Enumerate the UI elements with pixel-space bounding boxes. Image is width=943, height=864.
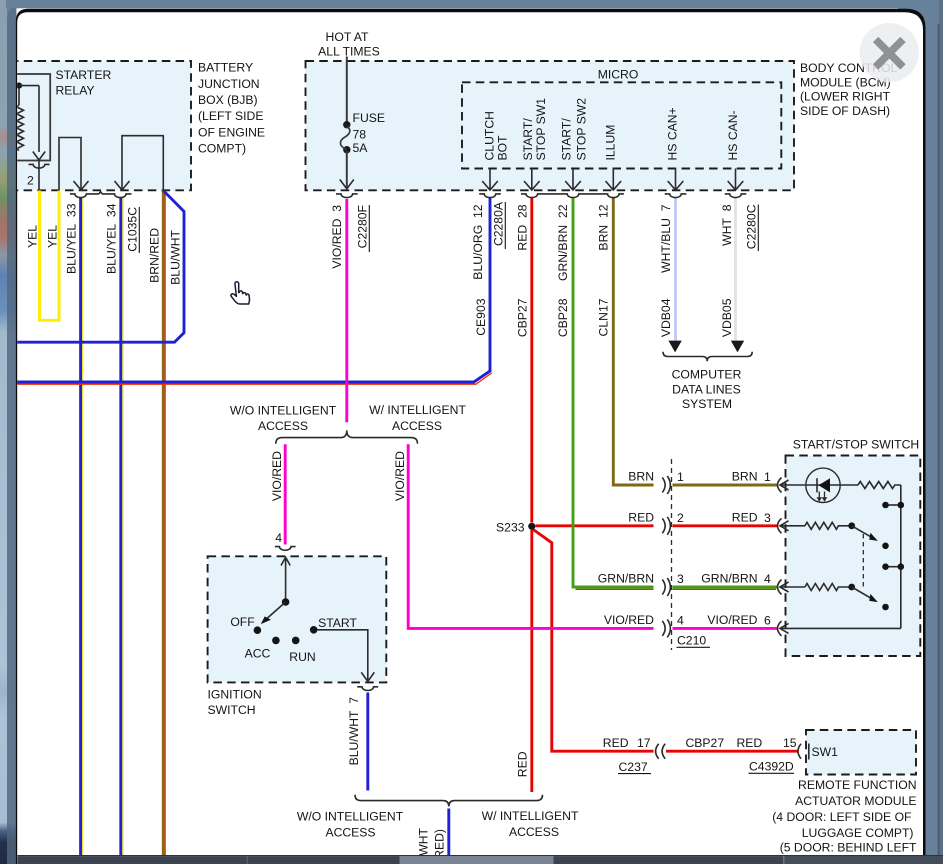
svg-text:HOT AT: HOT AT [326, 30, 369, 44]
svg-text:ALL TIMES: ALL TIMES [318, 45, 380, 59]
svg-text:BRN: BRN [732, 470, 758, 484]
svg-text:OF ENGINE: OF ENGINE [198, 125, 265, 139]
svg-text:ACCESS: ACCESS [392, 419, 442, 433]
svg-text:GRN/BRN: GRN/BRN [701, 572, 757, 586]
svg-text:YEL: YEL [46, 225, 60, 248]
svg-text:C4392D: C4392D [749, 760, 794, 774]
svg-text:3: 3 [764, 511, 771, 525]
svg-text:CBP27: CBP27 [686, 736, 725, 750]
svg-text:HS CAN-: HS CAN- [726, 110, 740, 160]
svg-text:RED 28: RED 28 [516, 204, 530, 250]
svg-text:RUN: RUN [289, 650, 315, 664]
svg-text:RED: RED [628, 510, 654, 524]
svg-text:3: 3 [677, 572, 684, 586]
svg-text:STARTER: STARTER [56, 68, 112, 82]
svg-text:START: START [318, 616, 357, 630]
svg-text:BATTERY: BATTERY [198, 61, 253, 75]
svg-text:WHT 8: WHT 8 [720, 204, 734, 246]
svg-text:C1035C: C1035C [126, 207, 140, 252]
svg-text:(LOWER RIGHT: (LOWER RIGHT [800, 90, 891, 104]
svg-text:FUSE: FUSE [353, 111, 386, 125]
svg-text:BRN 12: BRN 12 [597, 204, 611, 250]
svg-text:STOP SW1: STOP SW1 [534, 98, 548, 161]
svg-text:JUNCTION: JUNCTION [198, 77, 260, 91]
svg-text:(WHT: (WHT [417, 827, 431, 859]
svg-text:17: 17 [637, 736, 651, 750]
svg-text:BOX (BJB): BOX (BJB) [198, 93, 258, 107]
svg-text:C2280A: C2280A [492, 201, 506, 246]
svg-text:CBP28: CBP28 [556, 298, 570, 337]
svg-text:1: 1 [764, 470, 771, 484]
svg-text:VIO/RED 3: VIO/RED 3 [330, 205, 344, 269]
svg-text:6: 6 [764, 613, 771, 627]
svg-text:ACTUATOR MODULE: ACTUATOR MODULE [795, 794, 916, 808]
svg-text:(4 DOOR: LEFT SIDE OF: (4 DOOR: LEFT SIDE OF [772, 810, 911, 824]
svg-text:LUGGAGE COMPT): LUGGAGE COMPT) [802, 826, 914, 840]
svg-text:2: 2 [677, 511, 684, 525]
svg-text:COMPUTER: COMPUTER [672, 368, 742, 382]
svg-text:5A: 5A [353, 141, 369, 155]
svg-text:W/ INTELLIGENT: W/ INTELLIGENT [369, 403, 466, 417]
svg-text:WHT/BLU 7: WHT/BLU 7 [659, 204, 673, 273]
svg-text:DATA LINES: DATA LINES [672, 382, 741, 396]
svg-text:C210: C210 [677, 634, 706, 648]
svg-text:W/O INTELLIGENT: W/O INTELLIGENT [297, 810, 404, 824]
svg-text:ACCESS: ACCESS [325, 825, 375, 839]
svg-text:RELAY: RELAY [56, 84, 95, 98]
svg-text:START/STOP SWITCH: START/STOP SWITCH [793, 438, 919, 452]
svg-text:BOT: BOT [496, 135, 510, 161]
svg-text:(LEFT SIDE: (LEFT SIDE [198, 109, 263, 123]
svg-text:START/: START/ [560, 118, 574, 161]
svg-text:CLUTCH: CLUTCH [483, 111, 497, 160]
svg-text:4: 4 [764, 572, 771, 586]
svg-text:BLU/YEL 33: BLU/YEL 33 [65, 203, 79, 274]
svg-text:BRN/RED: BRN/RED [148, 228, 162, 283]
svg-text:SW1: SW1 [812, 745, 839, 759]
svg-text:RED: RED [732, 510, 758, 524]
svg-text:ACCESS: ACCESS [258, 419, 308, 433]
svg-text:78: 78 [353, 128, 367, 142]
svg-text:RED: RED [516, 751, 530, 777]
svg-text:ACC: ACC [245, 647, 271, 661]
svg-text:SIDE OF DASH): SIDE OF DASH) [800, 104, 890, 118]
svg-text:GRN/BRN: GRN/BRN [598, 572, 654, 586]
svg-text:2: 2 [27, 174, 34, 188]
svg-text:SWITCH: SWITCH [208, 703, 256, 717]
svg-text:VIO/RED: VIO/RED [270, 451, 284, 501]
svg-text:MICRO: MICRO [598, 68, 639, 82]
svg-text:BLU/WHT: BLU/WHT [169, 229, 183, 284]
svg-text:OFF: OFF [230, 615, 254, 629]
svg-text:YEL: YEL [26, 225, 40, 248]
svg-text:W/O INTELLIGENT: W/O INTELLIGENT [230, 404, 337, 418]
svg-text:SYSTEM: SYSTEM [682, 397, 732, 411]
svg-text:VDB05: VDB05 [720, 298, 734, 337]
svg-text:CLN17: CLN17 [597, 298, 611, 336]
svg-text:VIO/RED: VIO/RED [604, 613, 654, 627]
svg-text:BRN: BRN [628, 470, 654, 484]
svg-text:COMPT): COMPT) [198, 142, 246, 156]
svg-text:C2280F: C2280F [356, 205, 370, 248]
svg-text:GRN/BRN 22: GRN/BRN 22 [556, 204, 570, 281]
svg-text:CBP27: CBP27 [516, 298, 530, 337]
svg-text:BLU/YEL 34: BLU/YEL 34 [105, 203, 119, 274]
svg-text:RED: RED [737, 736, 763, 750]
svg-text:C237: C237 [619, 760, 648, 774]
svg-text:REMOTE FUNCTION: REMOTE FUNCTION [798, 778, 916, 792]
svg-text:IGNITION: IGNITION [208, 688, 262, 702]
svg-text:ILLUM: ILLUM [604, 125, 618, 161]
svg-text:RED: RED [603, 736, 629, 750]
svg-text:4: 4 [275, 531, 282, 545]
svg-text:1: 1 [677, 470, 684, 484]
svg-text:S233: S233 [496, 520, 525, 534]
svg-text:ACCESS: ACCESS [509, 825, 559, 839]
svg-text:START/: START/ [521, 118, 535, 161]
svg-text:VDB04: VDB04 [659, 298, 673, 337]
svg-text:VIO/RED: VIO/RED [707, 613, 757, 627]
svg-text:CE903: CE903 [474, 298, 488, 335]
svg-text:(5 DOOR: BEHIND LEFT: (5 DOOR: BEHIND LEFT [780, 841, 917, 855]
svg-text:C2280C: C2280C [745, 204, 759, 249]
svg-text:4: 4 [677, 613, 684, 627]
svg-text:BLU/WHT 7: BLU/WHT 7 [347, 697, 361, 766]
svg-text:HS CAN+: HS CAN+ [666, 107, 680, 160]
svg-text:VIO/RED: VIO/RED [393, 451, 407, 501]
svg-text:STOP SW2: STOP SW2 [575, 98, 589, 161]
svg-text:W/ INTELLIGENT: W/ INTELLIGENT [482, 809, 579, 823]
svg-text:BLU/ORG 12: BLU/ORG 12 [471, 204, 485, 279]
svg-text:15: 15 [783, 736, 797, 750]
